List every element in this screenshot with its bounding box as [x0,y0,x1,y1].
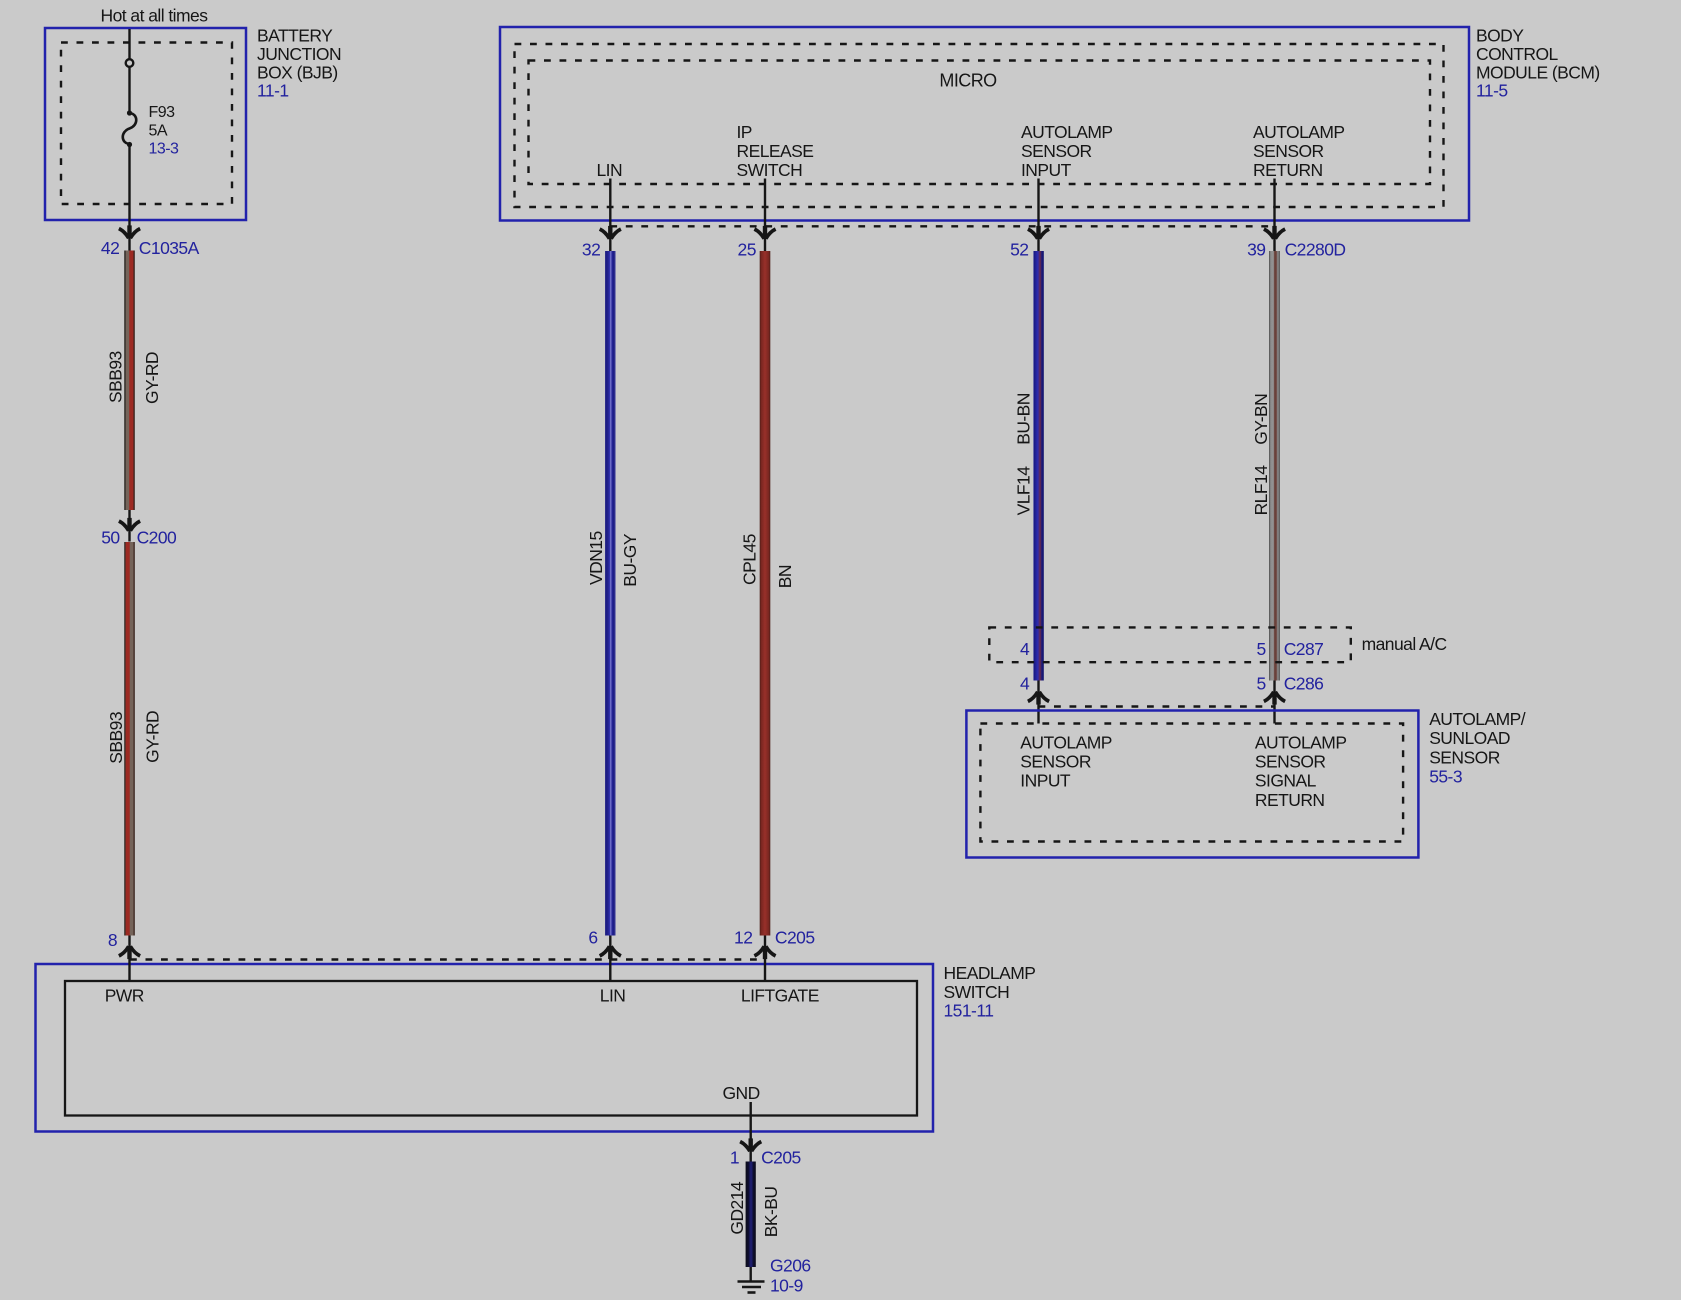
svg-text:HEADLAMP: HEADLAMP [944,963,1036,983]
svg-text:LIN: LIN [597,160,623,180]
svg-text:C286: C286 [1284,674,1324,694]
svg-text:SENSOR: SENSOR [1021,141,1092,161]
svg-text:SBB93: SBB93 [106,712,126,764]
svg-text:C205: C205 [761,1148,801,1168]
svg-text:BODY: BODY [1476,26,1524,46]
svg-text:GD214: GD214 [727,1181,747,1235]
svg-text:GND: GND [723,1083,760,1103]
svg-text:42: 42 [101,238,119,258]
svg-text:JUNCTION: JUNCTION [257,44,341,64]
svg-text:INPUT: INPUT [1021,160,1072,180]
svg-text:6: 6 [588,928,597,948]
svg-text:AUTOLAMP: AUTOLAMP [1253,122,1345,142]
svg-text:BU-BN: BU-BN [1013,393,1033,445]
svg-text:manual A/C: manual A/C [1362,634,1447,654]
svg-text:RETURN: RETURN [1255,790,1325,810]
svg-text:INPUT: INPUT [1020,771,1071,791]
svg-text:SIGNAL: SIGNAL [1255,771,1317,791]
svg-text:MODULE (BCM): MODULE (BCM) [1476,62,1600,82]
svg-text:BN: BN [775,565,795,588]
svg-text:SWITCH: SWITCH [737,160,803,180]
svg-text:RELEASE: RELEASE [737,141,814,161]
svg-text:RLF14: RLF14 [1251,465,1271,516]
svg-text:32: 32 [582,240,600,260]
svg-text:SBB93: SBB93 [105,351,125,403]
svg-text:BATTERY: BATTERY [257,26,333,46]
svg-text:C200: C200 [137,528,177,548]
svg-text:MICRO: MICRO [939,71,997,91]
svg-text:4: 4 [1020,674,1030,694]
svg-text:SWITCH: SWITCH [944,982,1010,1002]
svg-text:RETURN: RETURN [1253,160,1323,180]
svg-text:AUTOLAMP/: AUTOLAMP/ [1429,709,1526,729]
svg-text:55-3: 55-3 [1429,767,1462,787]
svg-text:C205: C205 [775,928,815,948]
svg-text:CPL45: CPL45 [740,534,760,585]
svg-text:G206: G206 [770,1255,811,1275]
svg-text:SENSOR: SENSOR [1429,747,1500,767]
svg-text:LIN: LIN [600,986,626,1006]
svg-text:C287: C287 [1284,639,1324,659]
svg-text:12: 12 [734,928,752,948]
svg-text:10-9: 10-9 [770,1276,803,1296]
svg-text:52: 52 [1010,240,1028,260]
svg-text:IP: IP [737,122,752,142]
svg-text:CONTROL: CONTROL [1476,44,1559,64]
svg-text:5A: 5A [149,123,168,140]
svg-text:BK-BU: BK-BU [761,1187,781,1238]
svg-text:151-11: 151-11 [944,1001,994,1021]
svg-text:SENSOR: SENSOR [1020,752,1091,772]
svg-text:C2280D: C2280D [1285,240,1346,260]
svg-text:BOX (BJB): BOX (BJB) [257,62,338,82]
svg-text:SUNLOAD: SUNLOAD [1429,728,1510,748]
svg-text:SENSOR: SENSOR [1255,752,1326,772]
svg-text:SENSOR: SENSOR [1253,141,1324,161]
svg-text:13-3: 13-3 [149,141,179,158]
svg-text:8: 8 [108,930,117,950]
svg-text:1: 1 [730,1148,739,1168]
svg-text:5: 5 [1257,674,1266,694]
svg-text:11-5: 11-5 [1476,81,1508,101]
svg-text:PWR: PWR [105,986,144,1006]
svg-text:AUTOLAMP: AUTOLAMP [1255,732,1347,752]
svg-text:11-1: 11-1 [257,81,289,101]
svg-text:GY-RD: GY-RD [142,352,162,404]
svg-text:LIFTGATE: LIFTGATE [741,986,819,1006]
svg-text:GY-RD: GY-RD [143,711,163,763]
svg-text:AUTOLAMP: AUTOLAMP [1020,732,1112,752]
svg-text:39: 39 [1247,240,1265,260]
svg-text:C1035A: C1035A [139,238,200,258]
svg-text:4: 4 [1020,639,1030,659]
svg-text:5: 5 [1257,639,1266,659]
svg-text:Hot at all times: Hot at all times [101,6,209,26]
svg-text:25: 25 [738,240,756,260]
svg-text:VDN15: VDN15 [586,531,606,585]
svg-text:AUTOLAMP: AUTOLAMP [1021,122,1113,142]
svg-text:50: 50 [101,528,120,548]
svg-text:BU-GY: BU-GY [620,533,640,587]
svg-text:F93: F93 [149,104,176,121]
svg-text:VLF14: VLF14 [1013,466,1033,516]
svg-text:GY-BN: GY-BN [1251,394,1271,445]
